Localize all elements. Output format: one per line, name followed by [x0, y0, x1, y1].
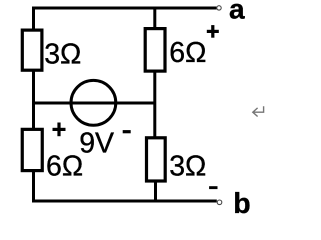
voltage source V1 9V circle: [71, 80, 116, 125]
svg-text:9V: 9V: [79, 127, 114, 159]
wire left rail lower: [32, 171, 35, 203]
wire bottom rail b: [32, 200, 217, 203]
resistor R1 3ohm top-left: [22, 30, 42, 70]
terminal a open circle: [217, 6, 221, 10]
svg-text:6Ω: 6Ω: [46, 151, 83, 183]
wire middle branch: [34, 102, 156, 105]
svg-text:3Ω: 3Ω: [169, 151, 206, 183]
label 9V: [79, 127, 114, 159]
terminal b open circle: [217, 200, 222, 205]
wire right rail lower: [154, 181, 157, 201]
wire top rail a: [32, 7, 217, 10]
svg-text:3Ω: 3Ω: [44, 38, 81, 70]
polarity minus at terminal b: [209, 186, 217, 189]
polarity minus of source: [123, 130, 131, 133]
polarity plus at terminal a: [207, 25, 219, 38]
resistor R4 3ohm bottom-right: [147, 138, 166, 181]
resistor R3 6ohm bottom-left: [22, 129, 42, 170]
svg-text:a: a: [229, 0, 245, 25]
label 3ohm R1: [44, 38, 81, 70]
label 6ohm R3: [46, 151, 83, 183]
resistor R2 6ohm top-right: [145, 29, 165, 72]
label 3ohm R4: [169, 151, 206, 183]
wire left rail middle: [32, 71, 35, 131]
wire right rail middle: [153, 71, 156, 138]
label a: [229, 0, 245, 25]
return symbol: [253, 106, 264, 116]
label 6ohm R2: [169, 37, 206, 69]
label b: [233, 188, 250, 220]
wire left rail upper: [32, 7, 35, 31]
svg-text:b: b: [233, 188, 250, 219]
svg-text:6Ω: 6Ω: [169, 37, 206, 69]
wire right rail upper: [153, 8, 156, 29]
polarity plus of source: [53, 123, 66, 137]
